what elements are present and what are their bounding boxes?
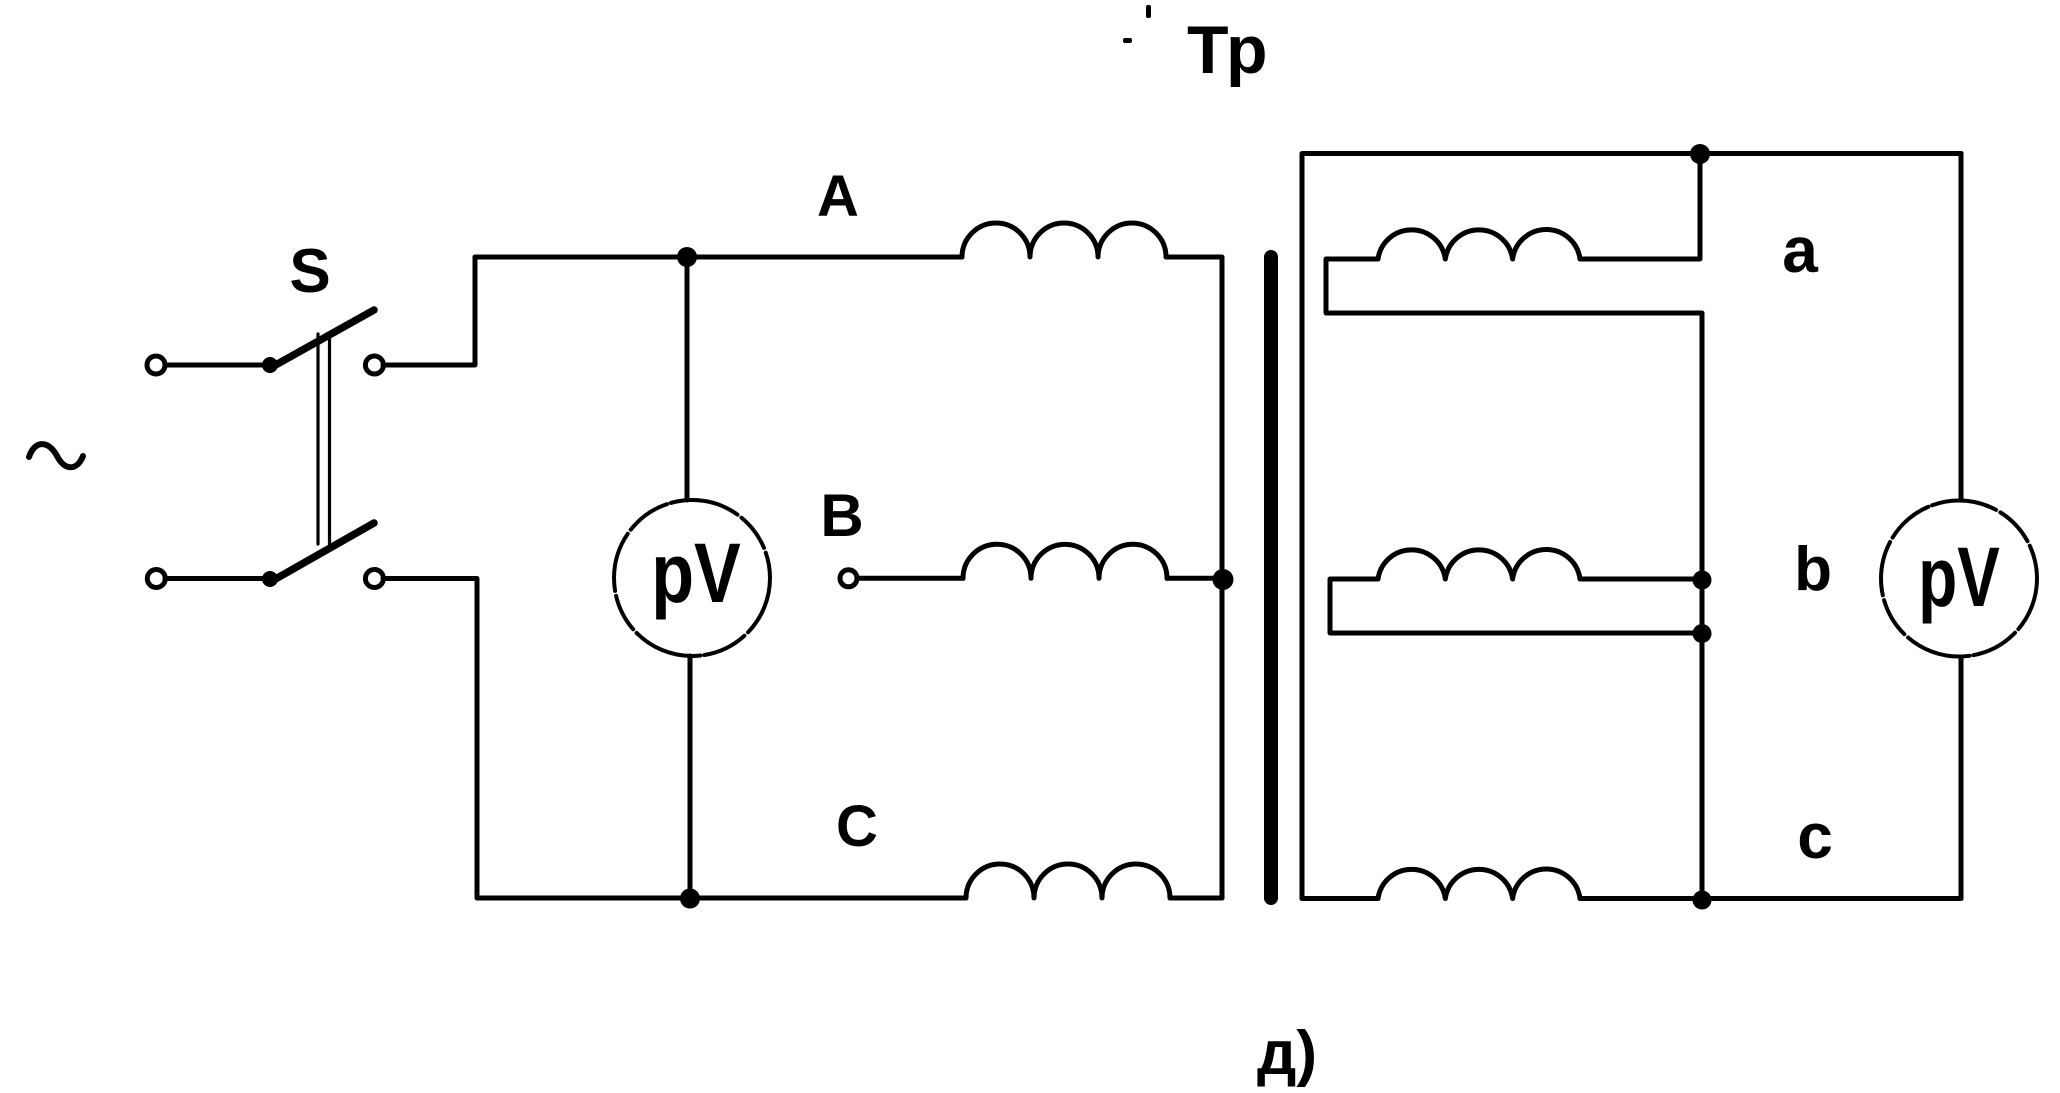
svg-text:pV: pV bbox=[1918, 529, 2000, 624]
svg-text:B: B bbox=[820, 482, 863, 549]
svg-text:Тр: Тр bbox=[1187, 12, 1267, 88]
svg-text:a: a bbox=[1782, 214, 1818, 286]
svg-text:c: c bbox=[1797, 800, 1833, 872]
svg-text:д): д) bbox=[1257, 1019, 1317, 1088]
svg-text:pV: pV bbox=[651, 527, 741, 620]
svg-text:C: C bbox=[836, 794, 878, 859]
svg-text:S: S bbox=[289, 237, 330, 306]
svg-text:b: b bbox=[1794, 535, 1832, 604]
svg-text:A: A bbox=[817, 164, 859, 229]
